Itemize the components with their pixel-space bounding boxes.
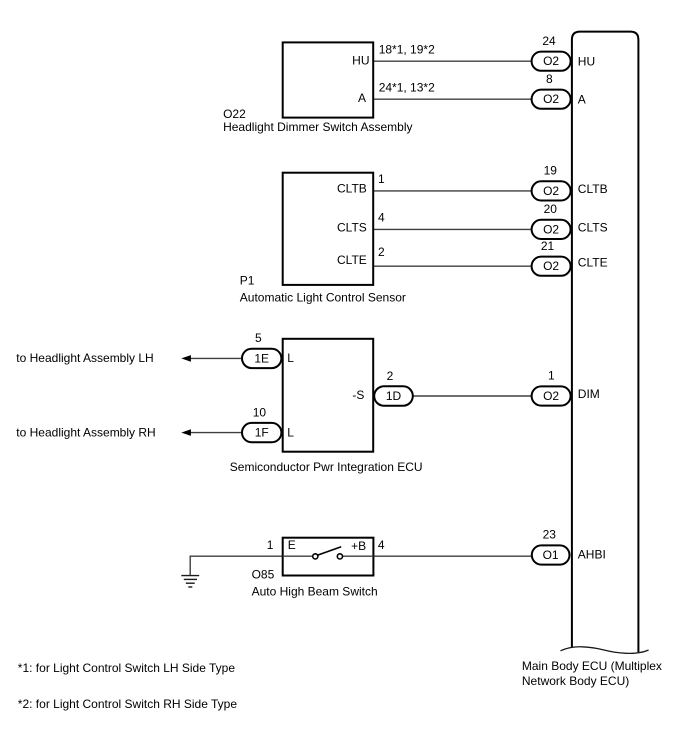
wire connector 1E to headlight assembly LH arrow <box>190 357 242 359</box>
svg-text:23: 23 <box>543 528 557 542</box>
svg-text:4: 4 <box>378 210 385 224</box>
switch lever <box>318 547 342 555</box>
svg-text:HU: HU <box>578 54 595 68</box>
arrowhead to Headlight Assembly RH <box>181 429 191 436</box>
svg-text:L: L <box>287 351 294 365</box>
wire CLTS pin of P1 to connector O2 pin 20 <box>374 228 552 230</box>
svg-text:Headlight Dimmer Switch Assemb: Headlight Dimmer Switch Assembly <box>223 120 412 134</box>
svg-text:CLTS: CLTS <box>578 221 608 235</box>
svg-text:CLTS: CLTS <box>337 220 367 234</box>
svg-text:8: 8 <box>546 72 553 86</box>
connector O1 pin 23 AHBI <box>532 545 570 564</box>
svg-text:21: 21 <box>541 239 555 253</box>
break wave at bottom of Main Body ECU <box>561 647 649 654</box>
svg-text:A: A <box>358 91 366 105</box>
svg-text:1D: 1D <box>386 389 402 403</box>
block P1 Automatic Light Control Sensor <box>283 173 374 285</box>
svg-text:20: 20 <box>544 202 558 216</box>
arrowhead to Headlight Assembly LH <box>181 355 191 362</box>
svg-text:Auto High Beam Switch: Auto High Beam Switch <box>252 585 378 599</box>
svg-text:1: 1 <box>267 538 274 552</box>
svg-text:-S: -S <box>352 388 364 402</box>
svg-text:AHBI: AHBI <box>578 548 606 562</box>
connector O2 pin 21 CLTE <box>532 257 571 276</box>
svg-text:1F: 1F <box>255 426 269 440</box>
svg-text:1E: 1E <box>254 351 269 365</box>
svg-text:19: 19 <box>544 164 558 178</box>
connector O2 pin 20 CLTS <box>532 220 571 239</box>
switch contact right circle <box>337 554 342 559</box>
wire inside switch E side <box>283 555 313 557</box>
connector O2 pin 24 HU <box>532 52 571 71</box>
wire HU pin of O22 to connector O2 pin 24 <box>374 60 552 62</box>
svg-text:*1: for Light Control Switch L: *1: for Light Control Switch LH Side Typ… <box>18 661 236 675</box>
wire connector 1F to headlight assembly RH arrow <box>190 432 242 434</box>
svg-text:HU: HU <box>352 53 369 67</box>
block O22 Headlight Dimmer Switch Assembly <box>283 42 374 117</box>
svg-text:4: 4 <box>378 538 385 552</box>
svg-text:Semiconductor Pwr Integration: Semiconductor Pwr Integration ECU <box>230 460 423 474</box>
svg-text:to Headlight Assembly RH: to Headlight Assembly RH <box>16 425 155 439</box>
svg-text:10: 10 <box>253 405 267 419</box>
svg-text:5: 5 <box>255 331 262 345</box>
svg-text:2: 2 <box>387 369 394 383</box>
svg-text:E: E <box>288 538 296 552</box>
svg-text:O2: O2 <box>543 259 559 273</box>
connector O2 pin 19 CLTB <box>532 181 571 200</box>
ground symbol G1 <box>181 576 199 587</box>
svg-text:CLTB: CLTB <box>337 181 367 195</box>
svg-text:24*1, 13*2: 24*1, 13*2 <box>379 81 435 95</box>
svg-text:1: 1 <box>378 172 385 186</box>
svg-text:P1: P1 <box>240 273 255 287</box>
svg-text:O2: O2 <box>543 54 559 68</box>
wire inside switch +B side <box>343 555 374 557</box>
connector O2 pin 8 A <box>532 90 571 109</box>
wire CLTB pin of P1 to connector O2 pin 19 <box>374 190 552 192</box>
svg-text:Network Body ECU): Network Body ECU) <box>522 674 629 688</box>
svg-text:+B: +B <box>351 539 366 553</box>
svg-text:Automatic Light Control Sensor: Automatic Light Control Sensor <box>240 291 406 305</box>
Main Body ECU (Multiplex Network Body ECU) outline <box>572 32 639 652</box>
wire -S pin 1D to connector O2 pin 1 DIM <box>412 395 551 397</box>
svg-text:O2: O2 <box>543 184 559 198</box>
switch contact left circle <box>313 554 318 559</box>
svg-text:DIM: DIM <box>578 387 600 401</box>
svg-text:2: 2 <box>378 245 385 259</box>
svg-text:A: A <box>578 92 586 106</box>
wire CLTE pin of P1 to connector O2 pin 21 <box>374 265 552 267</box>
svg-text:O2: O2 <box>543 92 559 106</box>
svg-text:O85: O85 <box>252 568 275 582</box>
svg-text:CLTE: CLTE <box>578 255 608 269</box>
svg-text:24: 24 <box>542 34 556 48</box>
svg-text:Main Body ECU (Multiplex: Main Body ECU (Multiplex <box>522 659 662 673</box>
wire switch +B pin 4 to connector O1 pin 23 AHBI <box>374 555 552 557</box>
svg-text:*2: for Light Control Switch R: *2: for Light Control Switch RH Side Typ… <box>18 697 238 711</box>
connector O2 pin 1 DIM <box>532 386 571 405</box>
svg-text:O2: O2 <box>543 389 559 403</box>
svg-text:O22: O22 <box>223 107 246 121</box>
svg-text:O1: O1 <box>543 548 559 562</box>
svg-text:1: 1 <box>548 369 555 383</box>
wire switch E pin 1 to ground <box>190 556 283 575</box>
connector 1D <box>374 386 413 405</box>
svg-text:to Headlight Assembly LH: to Headlight Assembly LH <box>16 351 153 365</box>
wire A pin of O22 to connector O2 pin 8 <box>374 98 552 100</box>
svg-text:CLTB: CLTB <box>578 182 608 196</box>
connector 1E <box>242 349 281 368</box>
svg-text:18*1, 19*2: 18*1, 19*2 <box>379 42 435 56</box>
block O85 Auto High Beam Switch <box>283 538 374 576</box>
svg-text:CLTE: CLTE <box>337 253 367 267</box>
block Semiconductor Pwr Integration ECU <box>283 339 374 452</box>
svg-text:O2: O2 <box>543 222 559 236</box>
svg-text:L: L <box>287 425 294 439</box>
connector 1F <box>242 423 281 442</box>
